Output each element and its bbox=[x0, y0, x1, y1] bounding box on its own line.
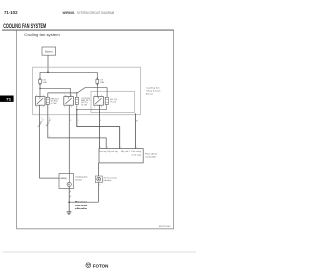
svg-text:Fan sig: Fan sig bbox=[99, 151, 106, 153]
svg-text:Fan relay: Fan relay bbox=[132, 151, 142, 153]
svg-text:Cooling fan: Cooling fan bbox=[75, 177, 89, 179]
svg-text:3: 3 bbox=[43, 95, 44, 97]
relay R3 bbox=[94, 97, 104, 106]
wire A: relay1 to motor bbox=[40, 105, 59, 178]
diode unit box bbox=[95, 176, 102, 183]
side tab 71 bbox=[0, 96, 14, 102]
svg-text:71-102: 71-102 bbox=[4, 10, 18, 15]
svg-text:2: 2 bbox=[43, 107, 44, 109]
svg-text:Battery: Battery bbox=[45, 50, 54, 53]
svg-text:3: 3 bbox=[70, 120, 71, 122]
svg-text:SYSTEM CIRCUIT DIAGRAM: SYSTEM CIRCUIT DIAGRAM bbox=[77, 11, 114, 15]
svg-text:5: 5 bbox=[36, 95, 37, 97]
svg-text:COOLING FAN SYSTEM: COOLING FAN SYSTEM bbox=[3, 23, 46, 30]
wire C: relay2 to motor bbox=[68, 105, 70, 174]
svg-text:Reverse: Reverse bbox=[75, 202, 88, 204]
svg-text:controller: controller bbox=[145, 156, 156, 159]
svg-text:Rly coil 2: Rly coil 2 bbox=[121, 151, 130, 153]
svg-text:EW710102: EW710102 bbox=[159, 226, 171, 228]
fan controller box bbox=[99, 149, 143, 163]
svg-text:Y-G: Y-G bbox=[110, 102, 117, 104]
ground bbox=[67, 211, 72, 213]
svg-text:Cooling fan system: Cooling fan system bbox=[24, 33, 60, 37]
node battery junction bbox=[47, 71, 49, 73]
coil2 feed drop bbox=[76, 93, 78, 97]
inner relay3 unit box bbox=[91, 91, 135, 112]
svg-text:5: 5 bbox=[64, 95, 65, 97]
cooling fan relay box (light outline) bbox=[33, 67, 141, 115]
fuse F2 bbox=[96, 72, 98, 96]
svg-text:2: 2 bbox=[101, 107, 102, 109]
svg-text:M: M bbox=[68, 183, 70, 187]
svg-text:3: 3 bbox=[101, 95, 102, 97]
relay R1 coil bbox=[46, 97, 49, 104]
motor ground wire bbox=[68, 187, 70, 212]
svg-text:3: 3 bbox=[71, 95, 72, 97]
motor M bbox=[67, 182, 71, 186]
svg-text:1: 1 bbox=[64, 107, 65, 109]
svg-text:7: 7 bbox=[121, 147, 122, 149]
svg-text:current: current bbox=[75, 204, 87, 207]
node ground junction bbox=[68, 201, 70, 203]
wire F: relay3 unit to controller bbox=[135, 113, 137, 148]
battery box bbox=[42, 47, 56, 55]
svg-text:motor: motor bbox=[75, 178, 82, 181]
svg-text:relay & fuse: relay & fuse bbox=[146, 89, 162, 92]
svg-text:1: 1 bbox=[49, 136, 50, 138]
svg-text:71: 71 bbox=[6, 97, 12, 102]
relay R2 bbox=[64, 97, 74, 106]
top bus bbox=[40, 71, 97, 73]
relay R1 bbox=[35, 97, 45, 106]
svg-text:Fan drive: Fan drive bbox=[145, 153, 158, 156]
svg-text:L-W: L-W bbox=[51, 103, 57, 105]
svg-text:3: 3 bbox=[136, 147, 137, 149]
svg-text:diode: diode bbox=[75, 208, 89, 210]
svg-text:WIRING.: WIRING. bbox=[63, 11, 76, 15]
svg-text:2: 2 bbox=[100, 147, 101, 149]
svg-text:2: 2 bbox=[70, 196, 71, 198]
bus2 (coil feed with jog) bbox=[48, 88, 107, 98]
diagram frame bbox=[17, 31, 174, 229]
svg-text:unit sig: unit sig bbox=[132, 153, 142, 156]
title rule bbox=[2, 29, 174, 32]
fuse F1 bbox=[39, 72, 41, 96]
svg-text:M21(B): M21(B) bbox=[61, 178, 67, 180]
svg-text:1: 1 bbox=[70, 191, 71, 193]
svg-text:G-W: G-W bbox=[81, 104, 87, 106]
wire D: coil2 to controller bbox=[77, 110, 120, 149]
relay R2 coil bbox=[75, 97, 78, 104]
svg-text:1: 1 bbox=[36, 107, 37, 109]
coil tie line R2-R3 bbox=[77, 105, 107, 110]
svg-text:1: 1 bbox=[107, 147, 108, 149]
svg-text:2: 2 bbox=[100, 120, 101, 122]
footer logo bbox=[86, 263, 91, 268]
wire E: relay3 to controller bbox=[99, 105, 101, 148]
relay R3 coil bbox=[105, 97, 108, 104]
svg-text:1: 1 bbox=[78, 120, 79, 122]
svg-text:Thermo switch: Thermo switch bbox=[103, 177, 117, 180]
svg-text:2: 2 bbox=[71, 107, 72, 109]
battery wire bbox=[47, 55, 49, 72]
svg-text:2: 2 bbox=[99, 185, 100, 187]
svg-text:1: 1 bbox=[94, 107, 95, 109]
svg-text:FOTON: FOTON bbox=[93, 263, 109, 268]
wire B: coil1 to controller bbox=[48, 105, 106, 149]
svg-text:(diode): (diode) bbox=[103, 180, 111, 182]
svg-text:Cooling fan: Cooling fan bbox=[146, 87, 161, 89]
bus1 to relay2 bbox=[40, 88, 70, 96]
footer rule bbox=[3, 251, 196, 253]
svg-text:5: 5 bbox=[94, 95, 95, 97]
cooling fan motor box bbox=[59, 174, 74, 189]
svg-text:Rly coil sig: Rly coil sig bbox=[108, 151, 118, 153]
svg-text:1: 1 bbox=[41, 117, 42, 119]
